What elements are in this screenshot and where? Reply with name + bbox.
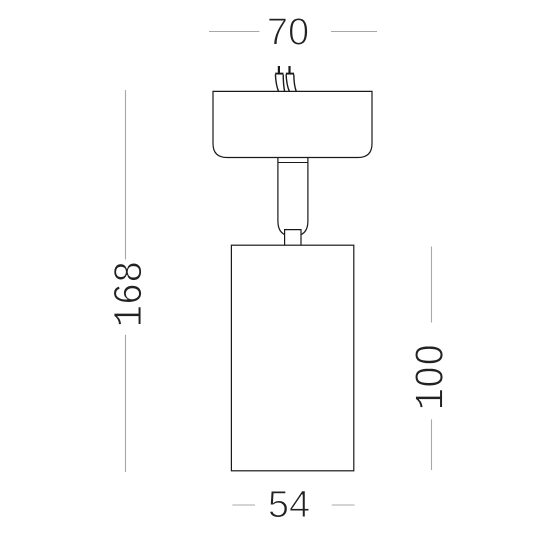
knuckle [285, 230, 301, 246]
wire 1 pin [278, 66, 280, 74]
ceiling canopy [213, 91, 372, 157]
wire 1 collar [275, 73, 283, 75]
lamp body [231, 245, 353, 471]
mask dotted zero 1 [426, 351, 433, 359]
svg-text:54: 54 [268, 484, 310, 526]
dimension line right (100) lower segment [431, 419, 433, 470]
dimension line left (168) lower segment [125, 335, 127, 472]
dimension line right (100) upper segment [431, 247, 433, 323]
dimension line bottom (54) right segment [332, 504, 355, 506]
svg-text:70: 70 [267, 12, 309, 54]
stem [278, 158, 308, 237]
dimension line top (70) right segment [331, 31, 377, 33]
dimension line top (70) left segment [209, 31, 260, 33]
wire 2 pin [288, 66, 290, 74]
dimension line left (168) upper segment [125, 90, 127, 260]
wire 2 ribbon right edge [294, 74, 296, 91]
stem flange line [278, 162, 308, 164]
wire 2 collar [286, 73, 294, 75]
wire 2 ribbon left edge [286, 74, 289, 91]
wire 1 ribbon left edge [275, 74, 278, 91]
svg-text:168: 168 [108, 261, 154, 328]
dimension line bottom (54) left segment [232, 504, 255, 506]
mask dotted zero 2 [426, 373, 433, 381]
wire 1 ribbon right edge [283, 74, 284, 91]
